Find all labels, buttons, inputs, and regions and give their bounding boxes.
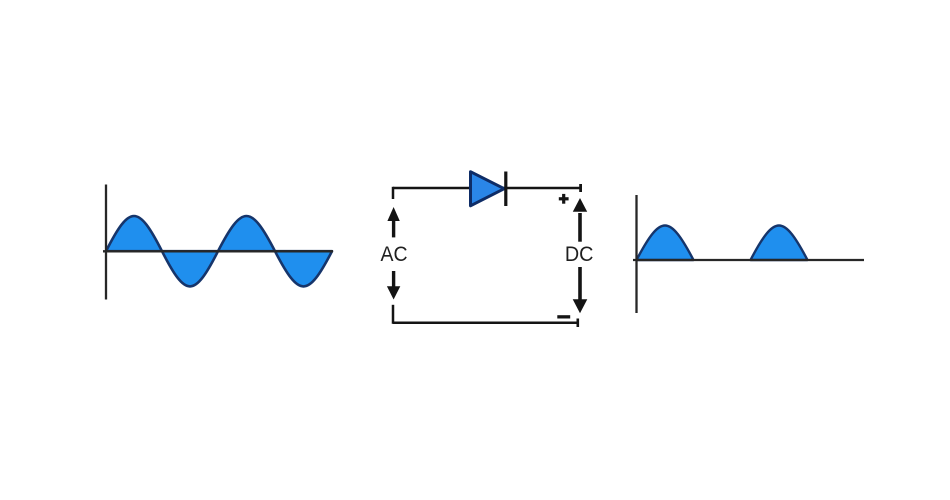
terminal tick bottom right (- terminal) [576, 319, 579, 328]
DC output rectified hump 1 (filled) [637, 226, 694, 261]
wire left top stub [392, 187, 395, 199]
diode D1 cathode bar [504, 172, 507, 207]
DC arrow down [573, 267, 588, 313]
svg-text:DC: DC [565, 243, 594, 266]
terminal tick top right (+ terminal) [579, 184, 582, 192]
AC arrow up [387, 207, 399, 237]
plus sign at DC + terminal [559, 194, 569, 204]
DC output rectified hump 2 (filled) [751, 226, 808, 261]
wire top (anode to cathode rail) [393, 187, 580, 190]
svg-text:AC: AC [381, 243, 408, 266]
diode D1 triangle (anode) [471, 172, 505, 206]
DC arrow up [573, 198, 587, 242]
minus sign at DC - terminal [557, 315, 570, 318]
AC input sine wave (filled) [106, 216, 332, 286]
wire left bottom stub [392, 305, 395, 324]
AC arrow down [387, 271, 400, 300]
wire bottom [393, 321, 577, 324]
left graph vertical axis [105, 185, 107, 300]
right graph horizontal axis [633, 259, 864, 261]
left graph horizontal axis [103, 250, 333, 252]
right graph vertical axis [635, 195, 637, 313]
